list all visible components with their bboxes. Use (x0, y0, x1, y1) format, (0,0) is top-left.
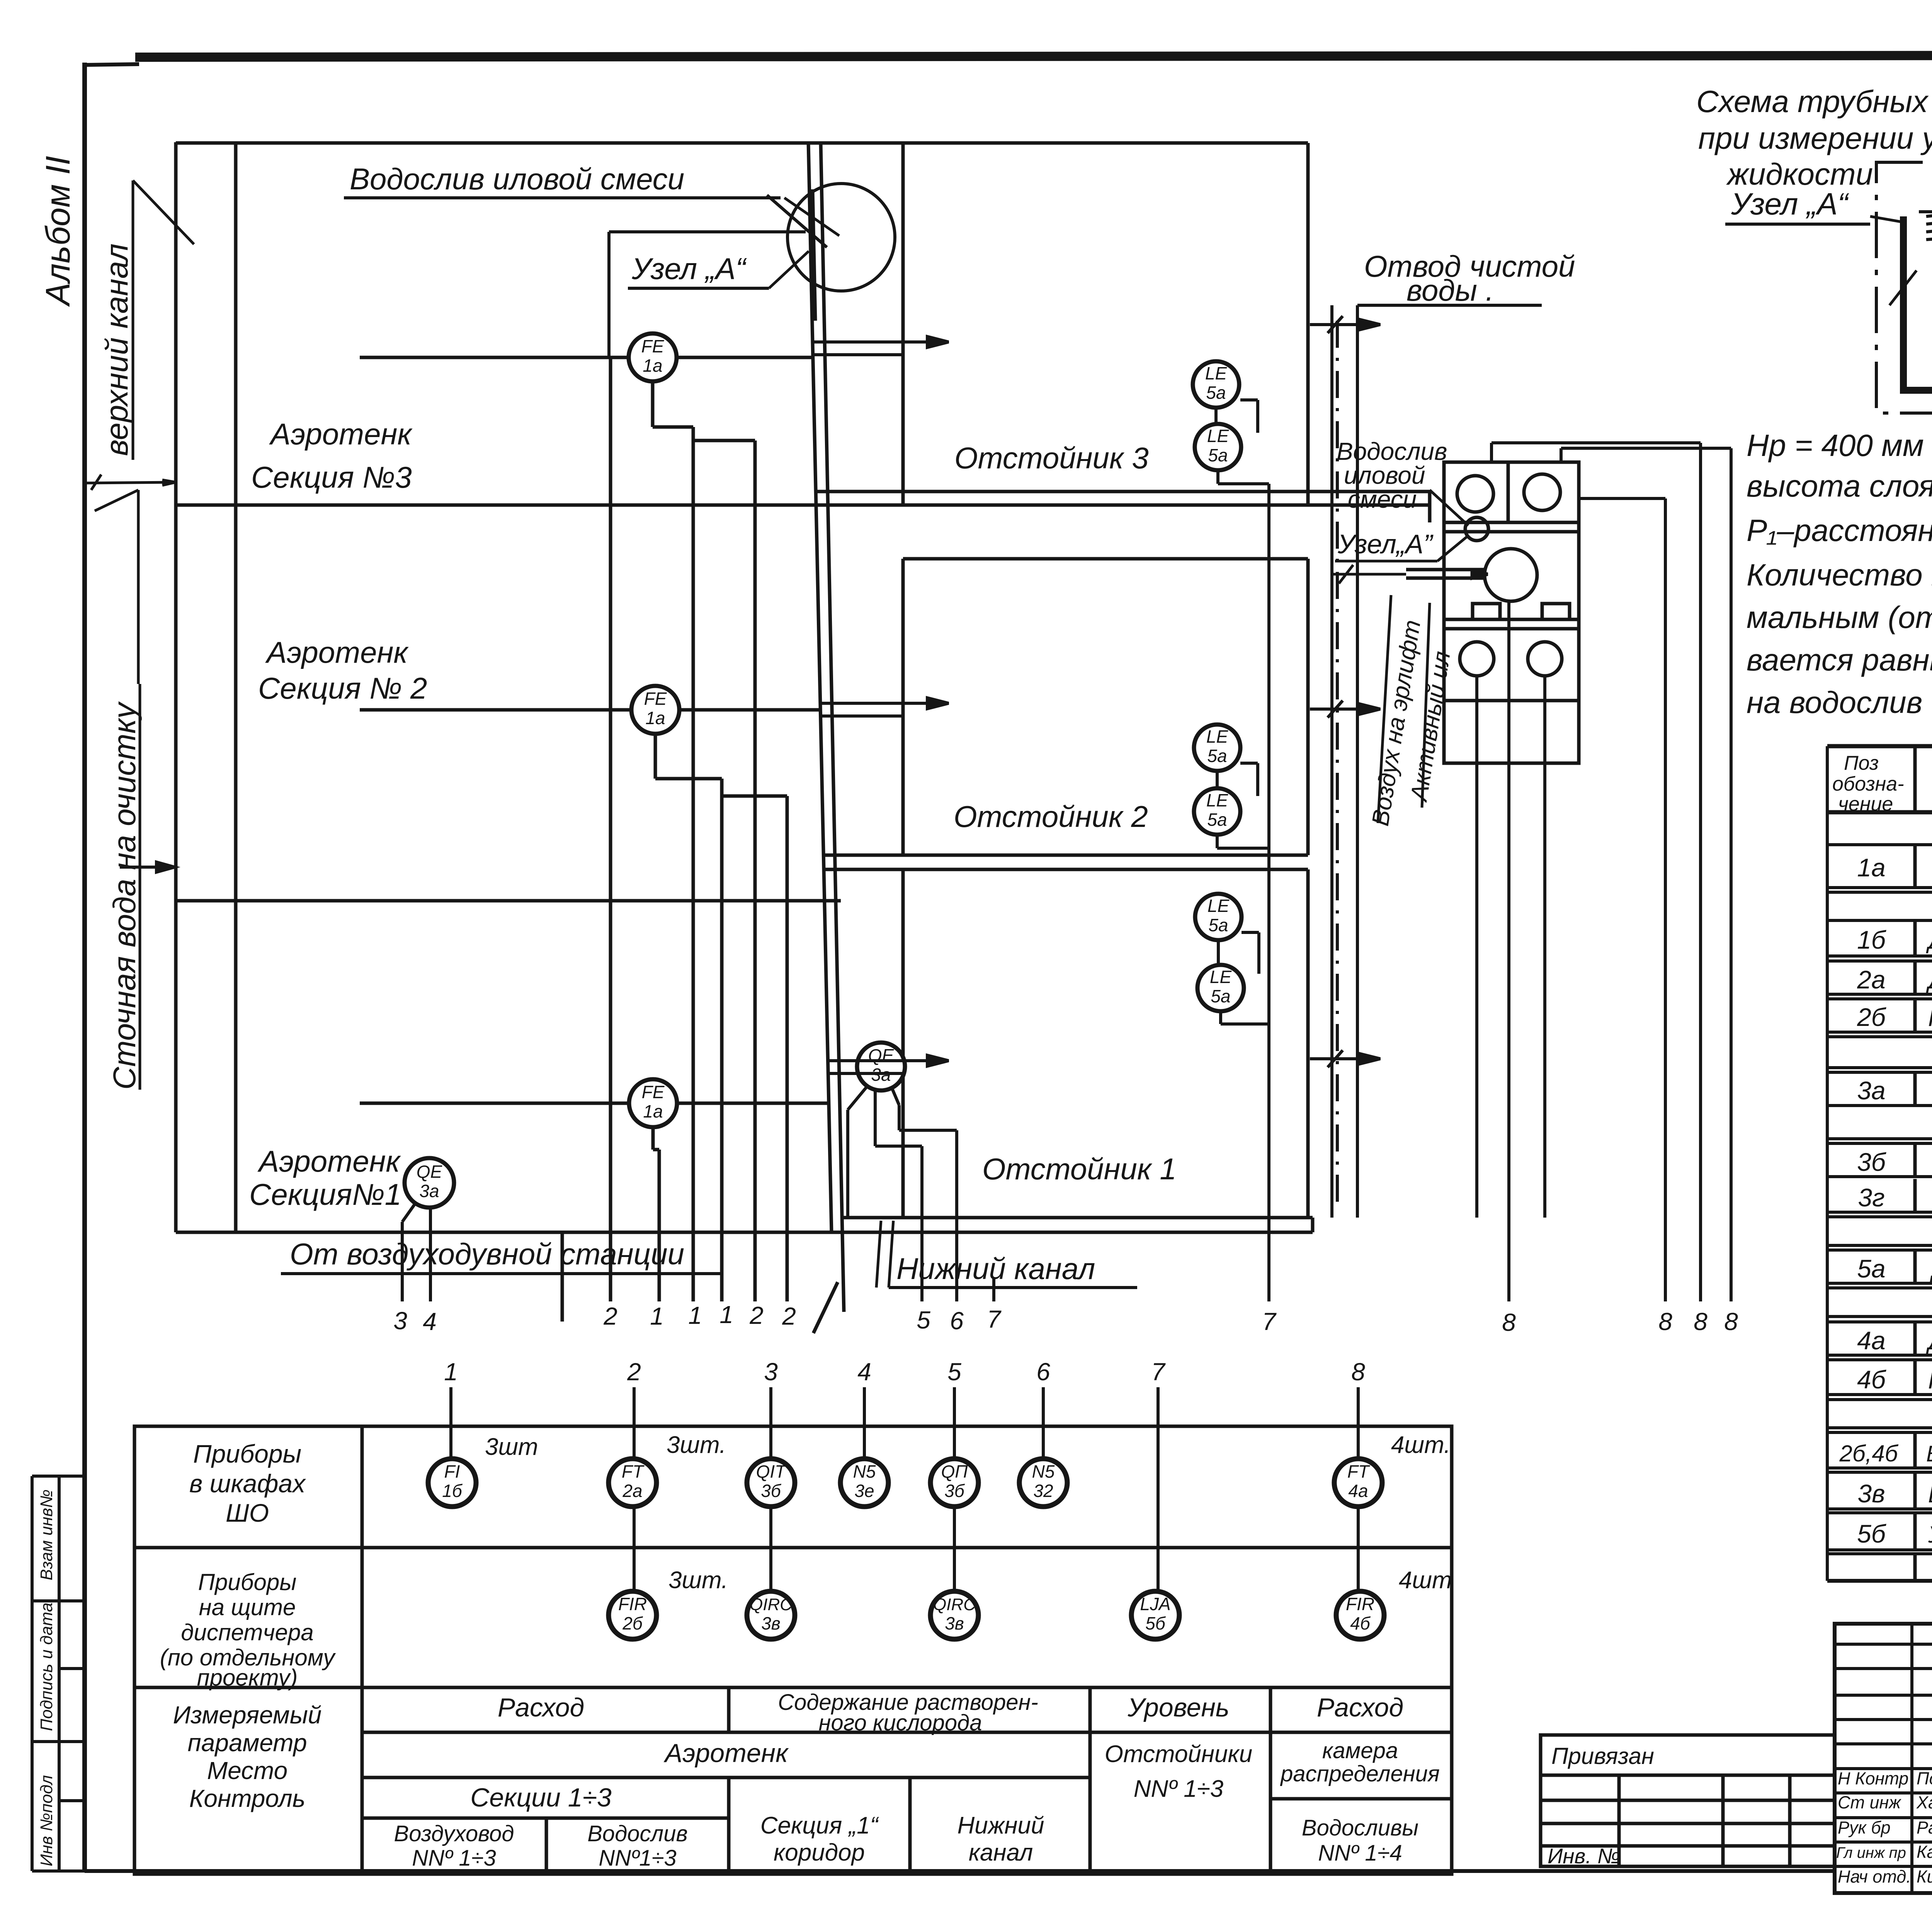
svg-text:обозна-: обозна- (1832, 773, 1904, 795)
svg-text:Воздуховод: Воздуховод (394, 1821, 514, 1846)
svg-text:Измеряемый: Измеряемый (173, 1701, 322, 1729)
svg-text:Отстойники: Отстойники (1105, 1741, 1252, 1767)
svg-text:6: 6 (950, 1307, 964, 1335)
instrument LE 5a settler2 lower (1194, 763, 1269, 848)
svg-text:2: 2 (603, 1302, 617, 1330)
svg-text:FE: FE (644, 689, 667, 709)
label водослив иловой смеси (344, 162, 839, 236)
svg-text:Хабачев: Хабачев (1916, 1793, 1932, 1812)
instrument N5 32 (1019, 1459, 1067, 1507)
svg-text:Секция№1: Секция№1 (249, 1177, 401, 1211)
BOTTOM INSTRUMENT TABLE (134, 1426, 1452, 1874)
svg-text:4: 4 (423, 1308, 437, 1335)
svg-text:8: 8 (1502, 1308, 1516, 1336)
wire aerotank left channel (174, 142, 178, 1232)
svg-text:4шт: 4шт (1399, 1567, 1452, 1594)
svg-text:LE: LE (1206, 726, 1229, 747)
instrument QIRC 3в (2) (930, 1591, 978, 1639)
svg-text:в шкафах: в шкафах (189, 1469, 306, 1498)
instrument LE 5a settler1 lower (1197, 932, 1269, 1024)
label узел А main (609, 232, 809, 357)
svg-text:Рук бр: Рук бр (1838, 1818, 1891, 1837)
svg-text:Секции 1÷3: Секции 1÷3 (470, 1783, 612, 1812)
svg-text:Р₁–расстояния от верха до: Р₁–расстояния от верха до низа водослива (1747, 513, 1932, 548)
instrument FT 2а (609, 1459, 656, 1507)
svg-text:2: 2 (627, 1358, 641, 1386)
wire settler2 bottom / mud line (824, 854, 1308, 857)
svg-text:Взам инв№: Взам инв№ (37, 1490, 56, 1580)
svg-text:Регулятор расхода воздуха РРВ: Регулятор расхода воздуха РРВ-1 (1928, 1367, 1932, 1394)
svg-text:3г: 3г (1858, 1183, 1884, 1212)
break mark (1889, 270, 1917, 305)
svg-text:Гл инж пр: Гл инж пр (1836, 1844, 1906, 1861)
settler 2 box (901, 559, 905, 855)
svg-text:1: 1 (650, 1302, 664, 1330)
svg-text:канал: канал (969, 1839, 1033, 1866)
svg-text:Капитульский: Капитульский (1917, 1842, 1932, 1862)
svg-text:коридор: коридор (774, 1839, 865, 1866)
svg-text:1б: 1б (1857, 925, 1887, 954)
wire aerotank bottom edge (176, 1231, 1313, 1234)
wire weir detail circle (node A) (767, 184, 895, 291)
svg-text:Нижний канал: Нижний канал (896, 1252, 1095, 1286)
svg-text:Контроль: Контроль (189, 1784, 306, 1812)
svg-text:чение: чение (1838, 793, 1893, 815)
svg-text:5а: 5а (1207, 810, 1227, 830)
svg-text:LJA: LJA (1140, 1594, 1170, 1614)
svg-text:3: 3 (393, 1307, 407, 1335)
MAIN PROCESS DIAGRAM (176, 142, 1430, 1333)
svg-text:FE: FE (641, 336, 665, 356)
settler 1 box (825, 868, 1308, 871)
svg-text:Уровень: Уровень (1127, 1693, 1229, 1722)
instrument LE 5a settler2 upper (1194, 725, 1240, 771)
svg-text:Приборы: Приборы (193, 1439, 301, 1468)
svg-text:5: 5 (917, 1306, 930, 1334)
svg-text:Ст инж: Ст инж (1838, 1793, 1901, 1812)
svg-text:Аэротенк: Аэротенк (265, 635, 409, 669)
svg-text:вается равным перепаду: вается равным перепаду уровня иловой сме… (1747, 643, 1932, 677)
svg-text:Подпись и дата: Подпись и дата (37, 1602, 56, 1731)
svg-text:5а: 5а (1206, 383, 1226, 403)
label detail title (1696, 84, 1932, 191)
instrument LJA 5б (1131, 1591, 1179, 1639)
instrument FI 1б (428, 1459, 476, 1507)
svg-text:3б: 3б (1857, 1148, 1887, 1176)
label от воздуходувной станции (281, 1237, 723, 1274)
svg-text:Нижний: Нижний (957, 1812, 1044, 1839)
instrument QП 3б (930, 1459, 978, 1507)
dimension tick into upper channel (85, 475, 176, 490)
header labels bottom table (189, 1439, 306, 1527)
svg-text:Позднякова: Позднякова (1917, 1769, 1932, 1788)
svg-text:QE: QE (868, 1045, 895, 1065)
row2 instrument circles (609, 1567, 1452, 1639)
svg-text:1а: 1а (645, 708, 665, 728)
instrument QE 3a settler (848, 1043, 957, 1301)
svg-text:диспетчера: диспетчера (181, 1619, 313, 1645)
svg-text:FI: FI (444, 1461, 460, 1482)
привязан block (1541, 1735, 1835, 1866)
svg-text:6: 6 (1036, 1358, 1050, 1386)
svg-text:5а: 5а (1208, 445, 1228, 465)
instrument QE 3a aerotank (402, 1158, 454, 1301)
instrument FE 1a section3 (629, 333, 677, 381)
label Аэротенк Секция №3 (251, 417, 413, 494)
svg-text:Кильметов: Кильметов (1917, 1867, 1932, 1886)
svg-text:Отстойник 3: Отстойник 3 (954, 441, 1149, 475)
svg-text:Расход: Расход (1317, 1693, 1403, 1722)
label Аэротенк Секция №1 (249, 1144, 401, 1211)
svg-text:Секция „1“: Секция „1“ (760, 1812, 879, 1839)
TITLE BLOCK (1835, 1624, 1932, 1893)
svg-text:жидкости: жидкости (1726, 157, 1873, 191)
weir tank detail (1876, 151, 1932, 413)
wire section divider 2/1 (176, 899, 841, 903)
svg-text:3шт.: 3шт. (668, 1567, 728, 1594)
svg-text:Инв №подл: Инв №подл (37, 1775, 56, 1866)
wire stub (561, 1232, 564, 1322)
svg-text:8: 8 (1694, 1308, 1708, 1335)
svg-text:ШО: ШО (226, 1499, 269, 1527)
svg-text:3б: 3б (944, 1481, 965, 1501)
wire air main pipe section 2 (360, 708, 631, 712)
svg-text:От воздуходувной станции: От воздуходувной станции (290, 1237, 684, 1271)
svg-text:Секция № 2: Секция № 2 (258, 671, 427, 705)
wire settler right edge (1306, 143, 1310, 505)
svg-text:при измерении уровня (расхода: при измерении уровня (расхода) (1698, 121, 1932, 155)
svg-text:высота слоя воды водосли: высота слоя воды водослива (1747, 469, 1932, 503)
svg-text:8: 8 (1724, 1308, 1738, 1335)
svg-text:32: 32 (1033, 1481, 1053, 1501)
svg-text:NNº1÷3: NNº1÷3 (599, 1846, 676, 1871)
wire clean water channel (1310, 305, 1542, 1218)
wire air main pipe section 1 (360, 1102, 629, 1105)
table rows (1839, 815, 1932, 1548)
svg-text:QIRC: QIRC (750, 1595, 793, 1614)
svg-text:Водослив иловой смеси: Водослив иловой смеси (350, 162, 684, 196)
row1 instrument circles (428, 1432, 1451, 1507)
svg-text:QП: QП (941, 1461, 968, 1482)
label Отвод чистой воды (1364, 249, 1575, 307)
svg-text:Вторичный прибор кислородомера: Вторичный прибор кислородомера КСП4 (1928, 1482, 1932, 1507)
svg-text:3а: 3а (1857, 1076, 1885, 1105)
svg-text:Инв. №: Инв. № (1548, 1844, 1620, 1868)
svg-text:Аэротенк: Аэротенк (257, 1144, 401, 1178)
instrument FE 1a section1 (629, 1079, 677, 1127)
svg-text:Узел „А“: Узел „А“ (631, 252, 747, 286)
svg-text:4б: 4б (1350, 1613, 1371, 1633)
wire settler left edge (901, 143, 905, 505)
label водослив иловой смеси (small) (1337, 437, 1468, 526)
svg-text:3в: 3в (1857, 1479, 1885, 1508)
svg-text:1: 1 (719, 1301, 733, 1328)
notes paragraph (1747, 428, 1932, 720)
svg-text:Поз: Поз (1844, 752, 1879, 774)
svg-text:QE: QE (417, 1162, 443, 1182)
node верхний канал label (99, 180, 194, 460)
svg-text:FIR: FIR (618, 1594, 647, 1614)
svg-text:1б: 1б (442, 1481, 463, 1501)
svg-text:2б,4б: 2б,4б (1839, 1441, 1899, 1466)
svg-text:камера: камера (1322, 1738, 1398, 1763)
svg-text:Отстойник 1: Отстойник 1 (982, 1152, 1177, 1186)
svg-text:FE: FE (642, 1082, 665, 1102)
wire section inlet tick (120, 866, 170, 869)
svg-text:4: 4 (857, 1358, 871, 1386)
svg-text:5б: 5б (1857, 1519, 1887, 1548)
svg-text:3в: 3в (945, 1613, 964, 1633)
wire aerotank top edge (176, 141, 1308, 145)
wire lower channel (844, 1216, 1313, 1220)
instrument LE 5a settler3 lower (1195, 400, 1269, 484)
svg-text:4а: 4а (1348, 1481, 1368, 1501)
svg-text:на водослив: на водослив (1747, 685, 1922, 720)
svg-text:мальным (от 0 5 до ׁ2 л/мин): мальным (от 0 5 до ׁ2 л/мин) давление во… (1747, 600, 1932, 634)
svg-text:NNº 1÷4: NNº 1÷4 (1318, 1840, 1402, 1866)
svg-text:на щите: на щите (199, 1594, 296, 1620)
wire chamber signal drops (994, 443, 1731, 1301)
instrument N5 3е (840, 1459, 888, 1507)
svg-text:5а: 5а (1208, 915, 1228, 935)
svg-text:7: 7 (987, 1305, 1002, 1333)
label Аэротенк Секция №2 (258, 635, 427, 705)
wire signal line 2 (609, 357, 612, 1301)
left stamp rotated texts (37, 1490, 56, 1866)
svg-text:3шт: 3шт (485, 1434, 538, 1460)
svg-text:4а: 4а (1857, 1326, 1885, 1355)
svg-text:Привязан: Привязан (1551, 1743, 1654, 1769)
svg-text:проекту): проекту) (197, 1665, 298, 1691)
svg-text:Нр = 400 мм – максимальная р: Нр = 400 мм – максимальная расчетная (по… (1747, 428, 1932, 463)
svg-text:3а: 3а (419, 1181, 439, 1201)
svg-text:1: 1 (444, 1358, 458, 1386)
svg-text:смеси: смеси (1348, 485, 1417, 513)
node Album II label (39, 156, 77, 307)
svg-text:верхний канал: верхний канал (99, 243, 134, 456)
svg-text:3в: 3в (761, 1613, 781, 1633)
svg-text:Н Контр: Н Контр (1838, 1769, 1908, 1788)
svg-text:NNº 1÷3: NNº 1÷3 (412, 1846, 496, 1871)
svg-text:Регулятор расхода воздуха РР: Регулятор расхода воздуха РРВ-1 (1928, 1005, 1932, 1031)
svg-text:5а: 5а (1211, 986, 1230, 1006)
node Сточная вода на очистку label (95, 490, 142, 1090)
wire settler outlets (1310, 323, 1376, 326)
svg-text:распределения: распределения (1280, 1761, 1440, 1786)
svg-text:Отстойник 2: Отстойник 2 (954, 799, 1148, 833)
svg-text:QIRC: QIRC (933, 1595, 976, 1614)
svg-text:5а: 5а (1207, 746, 1227, 766)
instrument QIRC 3в (1) (747, 1591, 795, 1639)
table header labels (1832, 752, 1932, 815)
wire FE1a s3 drop (651, 381, 655, 427)
distribution chamber (1333, 462, 1579, 763)
svg-text:Альбом II: Альбом II (39, 156, 77, 307)
svg-text:5б: 5б (1145, 1613, 1166, 1633)
bundle number labels row1 (393, 1301, 1738, 1336)
PARTS TABLE (1827, 746, 1932, 1581)
instrument QIT 3б (747, 1459, 795, 1507)
svg-text:LE: LE (1205, 363, 1228, 383)
svg-text:Вторичный прибор расходомера: Вторичный прибор расходомера РП160-08 (1926, 1441, 1932, 1466)
svg-text:Нач отд.: Нач отд. (1838, 1867, 1911, 1886)
svg-text:Устройство сигнализирующее СУ: Устройство сигнализирующее СУ-102 (1928, 1522, 1932, 1548)
svg-text:LE: LE (1206, 790, 1229, 810)
svg-text:5а: 5а (1857, 1254, 1885, 1283)
svg-text:воды .: воды . (1406, 273, 1494, 307)
instrument FE 1a section2 (631, 686, 679, 734)
left margin stamp boxes (32, 1476, 85, 1871)
svg-text:4б: 4б (1857, 1365, 1887, 1394)
svg-text:Схема трубных соединений: Схема трубных соединений (1696, 84, 1932, 119)
svg-text:Сточная вода на очистку: Сточная вода на очистку (107, 701, 142, 1090)
label нижний канал (876, 1221, 1137, 1288)
svg-text:параметр: параметр (188, 1729, 307, 1757)
wire sludge weir pipe to chamber (816, 492, 1430, 522)
svg-text:7: 7 (1151, 1358, 1166, 1386)
svg-text:NNº 1÷3: NNº 1÷3 (1134, 1776, 1223, 1802)
svg-text:8: 8 (1658, 1308, 1672, 1335)
label узел А left (1725, 187, 1903, 224)
numbers row2 with leads (444, 1358, 1365, 1386)
svg-text:2а: 2а (1857, 965, 1885, 994)
svg-text:1а: 1а (643, 1101, 663, 1121)
svg-text:8: 8 (1351, 1358, 1365, 1386)
svg-text:N5: N5 (1032, 1461, 1055, 1482)
svg-text:1: 1 (688, 1301, 702, 1329)
signature rows (1836, 1769, 1932, 1886)
svg-text:QIT: QIT (756, 1461, 787, 1482)
wire central channel (808, 142, 832, 1232)
svg-text:N5: N5 (853, 1461, 876, 1482)
svg-text:Количество продуваемого: Количество продуваемого воздуха устанавл… (1747, 558, 1932, 592)
wire FE1a s1 drop (651, 1127, 655, 1150)
instrument LE 5a settler3 upper (1193, 361, 1239, 408)
svg-text:3шт.: 3шт. (667, 1432, 726, 1458)
svg-text:3е: 3е (854, 1481, 874, 1501)
svg-text:Место: Место (207, 1757, 287, 1784)
svg-text:2: 2 (782, 1302, 796, 1330)
svg-text:4шт.: 4шт. (1391, 1432, 1451, 1458)
svg-text:Узел„А”: Узел„А” (1337, 529, 1434, 559)
parameter cells (394, 1690, 1440, 1871)
label узел А (small) (1335, 529, 1468, 561)
svg-text:2а: 2а (622, 1481, 642, 1501)
svg-text:LE: LE (1210, 967, 1232, 987)
instrument LE 5a settler1 upper (1195, 894, 1242, 940)
svg-text:LE: LE (1207, 426, 1230, 446)
svg-text:ного кислорода: ного кислорода (819, 1710, 982, 1735)
wire section divider 3/2 (176, 503, 1430, 507)
wire air main pipe section 3 (360, 357, 829, 1322)
svg-text:Аэротенк: Аэротенк (269, 417, 413, 451)
svg-text:Приборы: Приборы (198, 1569, 297, 1595)
svg-text:7: 7 (1262, 1308, 1277, 1335)
svg-text:2: 2 (749, 1301, 764, 1329)
svg-text:LE: LE (1207, 896, 1230, 916)
svg-text:FIR: FIR (1346, 1594, 1374, 1614)
svg-text:3б: 3б (761, 1481, 782, 1501)
svg-text:3: 3 (764, 1358, 778, 1386)
svg-text:1а: 1а (1857, 853, 1885, 882)
wire FE1a s2 drop (654, 734, 657, 779)
instrument FIR 2б (609, 1591, 656, 1639)
svg-text:1а: 1а (643, 356, 662, 376)
svg-text:2б: 2б (622, 1613, 643, 1633)
svg-text:5: 5 (947, 1358, 961, 1386)
svg-text:FT: FT (622, 1461, 645, 1482)
svg-text:Водосливы: Водосливы (1302, 1815, 1418, 1840)
instrument FT 4а (1334, 1459, 1382, 1507)
svg-text:Секция №3: Секция №3 (251, 460, 412, 494)
instrument FIR 4б (1336, 1591, 1384, 1639)
svg-text:FT: FT (1347, 1461, 1370, 1482)
svg-text:Расход: Расход (498, 1693, 584, 1722)
svg-text:Водослив: Водослив (587, 1821, 688, 1846)
svg-text:Узел „А“: Узел „А“ (1731, 187, 1850, 221)
wire settler inlets from channel (120, 337, 949, 1073)
svg-text:Аэротенк: Аэротенк (663, 1738, 789, 1768)
svg-text:2б: 2б (1857, 1003, 1887, 1031)
svg-text:Радюшкин: Радюшкин (1917, 1818, 1932, 1837)
